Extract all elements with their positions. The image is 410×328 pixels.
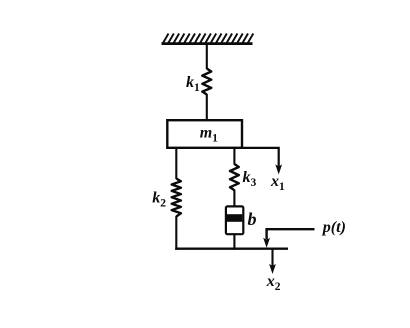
bottom bar	[175, 248, 288, 250]
wire spring k2 to bottom bar	[175, 216, 177, 250]
svg-text:p(t): p(t)	[321, 219, 346, 236]
spring k1	[202, 69, 211, 95]
wire mass to x1 arrow	[242, 148, 279, 167]
damper piston	[227, 214, 242, 222]
svg-text:b: b	[248, 209, 257, 229]
mass m1 box	[167, 120, 242, 148]
arrowhead x2	[269, 264, 276, 274]
wire spring k3 to damper	[233, 190, 235, 216]
wire spring k1 to mass	[206, 94, 208, 121]
force p(t) wire	[267, 229, 315, 239]
ceiling line	[162, 42, 253, 45]
spring k3	[230, 164, 239, 190]
arrowhead x1	[275, 164, 282, 174]
wire damper to bottom bar	[233, 234, 235, 250]
wire ceiling to spring k1	[206, 44, 208, 69]
wire mass to spring k3	[233, 148, 235, 165]
fixed support hatching	[163, 34, 253, 44]
spring k2	[172, 179, 181, 217]
damper b cylinder	[226, 206, 243, 234]
x2 arrow line	[271, 249, 273, 266]
arrowhead p(t)	[263, 238, 270, 248]
wire mass to spring k2	[175, 148, 177, 179]
